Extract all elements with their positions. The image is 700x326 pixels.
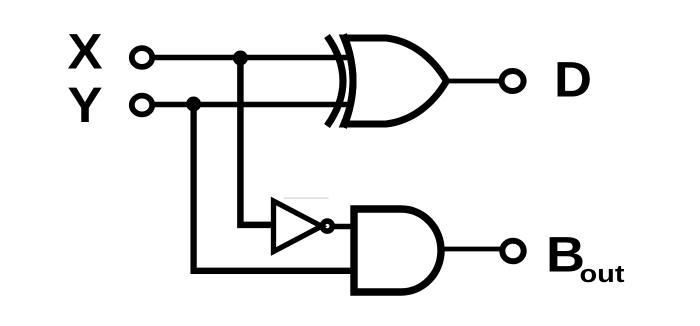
node junction on X wire: [233, 51, 248, 66]
and gate U3 body: [354, 209, 441, 292]
xor gate U1 back arc overshoot: [344, 35, 354, 128]
output terminal D: [502, 71, 524, 91]
faint artifact line: [284, 198, 329, 199]
node junction on Y wire: [186, 97, 201, 112]
xor gate U1 input arc: [327, 36, 343, 126]
input terminal X: [132, 48, 152, 67]
svg-text:D: D: [554, 52, 592, 108]
wire X junction down to inverter input: [240, 58, 274, 225]
svg-text:out: out: [580, 261, 625, 288]
wire Y junction down to AND input B: [194, 104, 351, 271]
svg-text:Y: Y: [68, 77, 103, 133]
wire X to XOR input A: [154, 55, 351, 61]
inverter U2 bubble: [322, 221, 332, 231]
inverter U2 triangle: [274, 201, 322, 252]
wire AND output to Bout terminal: [441, 247, 500, 252]
wire Y to XOR input B: [154, 102, 351, 108]
input terminal Y: [132, 96, 152, 115]
xor gate U1 body: [344, 38, 447, 124]
output terminal Bout: [502, 241, 523, 262]
wire inverter output to AND input A: [331, 224, 352, 230]
wire XOR output to D terminal: [446, 79, 500, 84]
svg-text:X: X: [68, 24, 103, 80]
